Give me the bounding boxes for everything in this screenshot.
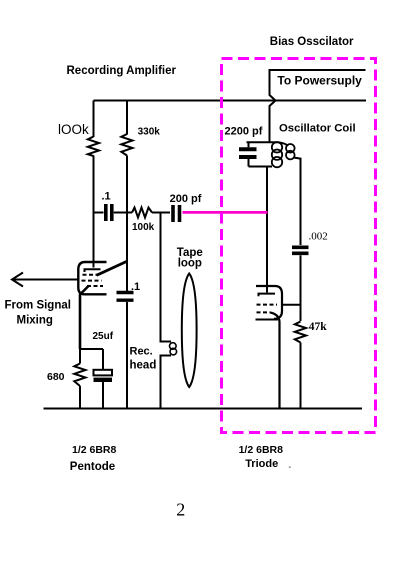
svg-text:lOOk: lOOk bbox=[58, 122, 89, 137]
svg-text:25uf: 25uf bbox=[93, 331, 114, 342]
svg-text:2200 pf: 2200 pf bbox=[225, 126, 263, 138]
svg-text:.1: .1 bbox=[131, 281, 140, 293]
svg-text:2: 2 bbox=[176, 500, 185, 520]
svg-text:Pentode: Pentode bbox=[70, 461, 115, 473]
svg-text:200 pf: 200 pf bbox=[170, 193, 202, 205]
svg-text:Triode: Triode bbox=[245, 458, 278, 470]
svg-text:Oscillator Coil: Oscillator Coil bbox=[279, 122, 356, 134]
svg-text:330k: 330k bbox=[138, 127, 161, 138]
svg-text:loop: loop bbox=[178, 258, 202, 270]
svg-text:1/2 6BR8: 1/2 6BR8 bbox=[239, 444, 284, 456]
svg-text:Bias Osscilator: Bias Osscilator bbox=[270, 36, 354, 48]
svg-text:.002: .002 bbox=[309, 230, 328, 242]
svg-text:To Powersuply: To Powersuply bbox=[277, 74, 362, 88]
svg-text:.1: .1 bbox=[102, 191, 111, 203]
svg-text:Recording Amplifier: Recording Amplifier bbox=[67, 65, 177, 77]
svg-text:680: 680 bbox=[47, 371, 65, 383]
svg-text:1/2 6BR8: 1/2 6BR8 bbox=[72, 444, 117, 456]
svg-text:Rec.: Rec. bbox=[130, 345, 153, 357]
svg-text:Mixing: Mixing bbox=[17, 315, 53, 327]
svg-text:47k: 47k bbox=[309, 321, 328, 333]
svg-text:From Signal: From Signal bbox=[5, 299, 71, 311]
svg-text:head: head bbox=[130, 360, 157, 372]
svg-text:100k: 100k bbox=[132, 222, 155, 233]
